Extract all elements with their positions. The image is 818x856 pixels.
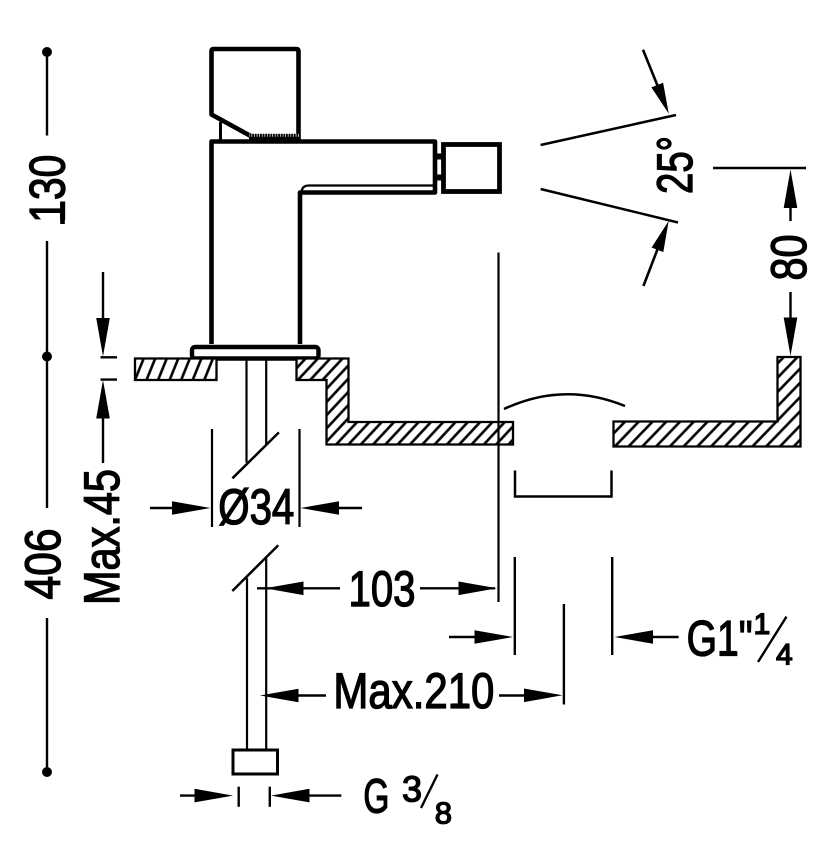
- faucet handle: [212, 49, 299, 140]
- G1 1/4 extension line left: [514, 557, 516, 655]
- Max.45 lower arrow: [96, 380, 110, 419]
- angle line top: [541, 115, 676, 145]
- aerator connector nubs: [436, 154, 443, 160]
- foot serif of fraction digit 1: [759, 631, 770, 635]
- G1 1/4 arrow right: [615, 630, 654, 644]
- G 3/8 tick right: [269, 787, 271, 807]
- left dimension line upper segment: [46, 56, 48, 136]
- svg-text:Ø34: Ø34: [218, 479, 294, 535]
- svg-text:4: 4: [776, 639, 793, 672]
- Max.210 left arrow: [260, 689, 299, 703]
- angle leader top: [643, 50, 660, 91]
- svg-text:3: 3: [402, 768, 422, 809]
- 103 dimension left arrow: [257, 587, 340, 589]
- spout underside inner line: [302, 186, 435, 194]
- foot serif of digit 1 in 103: [352, 602, 369, 607]
- supply pipe lower right line: [265, 559, 267, 751]
- G1 1/4 extension line right: [611, 557, 613, 655]
- angle line bottom: [541, 189, 678, 223]
- diameter 34 extension line left: [211, 429, 213, 527]
- G 3/8 tick left: [237, 787, 239, 807]
- pipe break diagonal lower: [232, 545, 278, 591]
- svg-text:25°: 25°: [647, 136, 703, 194]
- svg-text:8: 8: [435, 795, 452, 830]
- Max.210 right arrow: [499, 694, 530, 696]
- G 3/8 arrow right: [271, 789, 310, 803]
- basin arc: [504, 394, 625, 409]
- left dimension line middle segment: [46, 241, 48, 508]
- countertop middle stepped section: [297, 359, 514, 445]
- faucet body and spout outline: [212, 142, 436, 345]
- foot serif of digit 1 in 130: [60, 208, 65, 225]
- svg-text:130: 130: [20, 155, 76, 223]
- left dimension line lower segment: [46, 618, 48, 768]
- svg-text:G: G: [363, 770, 389, 823]
- drain hole bracket: [515, 471, 612, 497]
- Max.45 tick bottom: [101, 378, 118, 380]
- dot middle (counter level): [42, 352, 52, 362]
- 103 dimension right arrow: [420, 587, 495, 589]
- 80 dim upper arrow: [784, 170, 798, 209]
- Max.210 extension line right: [563, 604, 565, 705]
- 80 dim reference line: [713, 167, 806, 170]
- left overall dimension: dot top: [42, 47, 52, 57]
- diameter 34 extension line right: [298, 429, 300, 527]
- dot bottom: [42, 767, 52, 777]
- angle leader bottom: [643, 248, 658, 286]
- countertop right section with raised edge: [614, 357, 801, 447]
- svg-text:80: 80: [761, 235, 817, 281]
- pipe break diagonal upper: [232, 432, 279, 478]
- G1 1/4 arrow left: [449, 636, 482, 638]
- diameter 34 arrow right: [301, 501, 340, 515]
- countertop left section: [135, 359, 217, 381]
- Max.45 tick top: [101, 356, 118, 358]
- G 3/8 arrow left: [180, 794, 201, 796]
- supply pipe lower left line: [246, 578, 248, 750]
- svg-text:G1": G1": [687, 610, 753, 666]
- base plate: [192, 347, 319, 359]
- diameter 34 arrow left: [150, 507, 180, 509]
- spout axis extension line: [497, 253, 499, 603]
- handle neck nub: [219, 122, 222, 140]
- foot serif of digit 1 in Max.210: [452, 703, 469, 708]
- svg-text:Max.210: Max.210: [333, 663, 494, 719]
- aerator: [444, 145, 500, 192]
- foot serif of digit 1 in G1: [720, 651, 737, 656]
- 80 dim lower arrow: [789, 292, 791, 330]
- pipe end connector: [233, 750, 278, 774]
- svg-text:Max.45: Max.45: [74, 469, 130, 605]
- Max.45 dimension upper arrow: [102, 272, 104, 330]
- svg-text:103: 103: [349, 561, 416, 617]
- svg-text:406: 406: [15, 529, 71, 600]
- supply pipe upper left line: [245, 359, 247, 463]
- svg-text:1: 1: [754, 608, 771, 641]
- handle serration band: [249, 134, 299, 138]
- supply pipe upper right line: [265, 359, 267, 444]
